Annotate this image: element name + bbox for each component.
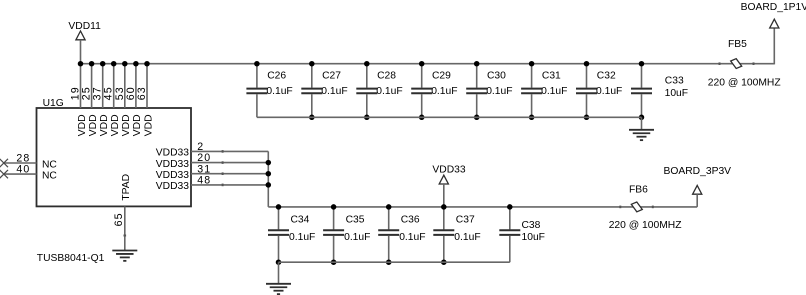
svg-text:BOARD_3P3V: BOARD_3P3V — [664, 166, 732, 177]
svg-text:VDD: VDD — [143, 114, 154, 136]
junction on VDD33 vertical — [266, 171, 272, 177]
wire: VDD11 top bus rail — [81, 63, 775, 65]
svg-text:U1G: U1G — [43, 98, 64, 109]
wire: NC pin 28 stub with no-connect X — [0, 159, 37, 167]
svg-text:0.1uF: 0.1uF — [266, 86, 292, 97]
wire: bottom bank ground rail — [279, 261, 510, 263]
svg-text:VDD11: VDD11 — [68, 21, 101, 32]
svg-text:220 @ 100MHZ: 220 @ 100MHZ — [609, 220, 682, 231]
capacitor C33 10uF — [631, 64, 688, 118]
power symbol VDD11 — [68, 21, 101, 64]
wire: VDD33 rail to bottom bank — [268, 206, 697, 208]
junction bottom rail / C28 — [364, 115, 370, 121]
junction bottom bank top rail / C37 — [441, 204, 447, 210]
junction top bus / C27 — [309, 61, 315, 66]
svg-text:0.1uF: 0.1uF — [321, 86, 347, 97]
ferrite bead FB6 — [619, 185, 654, 212]
svg-text:FB6: FB6 — [629, 185, 648, 196]
junction bottom bank top rail / C36 — [386, 204, 392, 210]
junction bottom bank top rail / C38 — [507, 204, 513, 210]
svg-text:48: 48 — [197, 175, 211, 187]
junction bottom bank ground rail / C34 — [276, 259, 282, 265]
junction on top bus at pin 45 — [111, 61, 117, 66]
junction bottom rail / C33 — [639, 115, 645, 121]
svg-text:C30: C30 — [487, 70, 506, 81]
capacitor C31 0.1uF — [521, 64, 567, 118]
junction on top bus at pin 63 — [144, 61, 150, 66]
junction top bus / C29 — [419, 61, 425, 66]
junction bottom bank top rail / C35 — [331, 204, 337, 210]
svg-text:10uF: 10uF — [522, 232, 545, 243]
svg-text:0.1uF: 0.1uF — [454, 232, 480, 243]
svg-text:0.1uF: 0.1uF — [541, 86, 567, 97]
power symbol BOARD_1P1V — [741, 2, 806, 28]
capacitor C36 0.1uF — [378, 207, 425, 262]
junction bottom rail / C30 — [474, 115, 480, 121]
svg-text:0.1uF: 0.1uF — [596, 86, 622, 97]
svg-text:VDD: VDD — [132, 114, 143, 136]
junction bottom rail / C31 — [529, 115, 535, 121]
IC U1G TUSB8041-Q1 body — [37, 108, 192, 206]
svg-text:VDD33: VDD33 — [156, 181, 189, 192]
junction on top bus at pin 25 — [89, 61, 95, 66]
junction top bus / C26 — [254, 61, 260, 66]
wire: VDD33 pin 48 — [191, 184, 268, 186]
svg-text:C36: C36 — [401, 215, 420, 226]
svg-text:VDD: VDD — [110, 114, 121, 136]
junction bottom rail / C27 — [309, 115, 315, 121]
svg-text:C34: C34 — [291, 215, 310, 226]
capacitor C29 0.1uF — [411, 64, 457, 118]
wire: NC pin 40 stub with no-connect X — [0, 170, 37, 178]
svg-text:VDD: VDD — [77, 114, 88, 136]
power symbol VDD33 — [432, 164, 465, 207]
svg-text:VDD33: VDD33 — [156, 170, 189, 181]
junction top bus / C32 — [584, 61, 590, 66]
junction top bus / C33 — [639, 61, 645, 66]
wire: VDD pin 53 stub — [124, 64, 126, 108]
junction top bus / C31 — [529, 61, 535, 66]
wire: VDD pin 37 stub — [102, 64, 104, 108]
svg-text:0.1uF: 0.1uF — [399, 232, 425, 243]
svg-text:0.1uF: 0.1uF — [376, 86, 402, 97]
capacitor C30 0.1uF — [466, 64, 512, 118]
svg-text:0.1uF: 0.1uF — [289, 232, 315, 243]
capacitor C38 10uF — [499, 207, 545, 262]
pin end tick (pin 2) — [222, 150, 224, 153]
wire: VDD33 pin 31 — [191, 173, 268, 175]
wire: VDD33 pin 2 — [191, 150, 268, 152]
junction on VDD33 vertical — [266, 160, 272, 166]
svg-text:FB5: FB5 — [728, 39, 747, 50]
svg-text:C28: C28 — [377, 70, 396, 81]
svg-text:VDD33: VDD33 — [432, 164, 465, 175]
svg-text:NC: NC — [42, 170, 57, 181]
svg-text:C32: C32 — [597, 70, 616, 81]
svg-text:VDD: VDD — [88, 114, 99, 136]
svg-text:40: 40 — [16, 163, 30, 175]
svg-text:10uF: 10uF — [665, 88, 688, 99]
pin end tick (pin 31) — [222, 172, 224, 175]
svg-text:C33: C33 — [665, 76, 684, 87]
capacitor C37 0.1uF — [433, 207, 480, 262]
wire: VDD pin 63 stub — [146, 64, 148, 108]
capacitor C28 0.1uF — [356, 64, 402, 118]
pin end tick (pin 65) — [124, 235, 127, 237]
ferrite bead FB5 — [719, 39, 755, 69]
svg-text:0.1uF: 0.1uF — [431, 86, 457, 97]
svg-text:C35: C35 — [346, 215, 365, 226]
svg-text:VDD: VDD — [99, 114, 110, 136]
wire: VDD33 pin 20 — [191, 162, 268, 164]
svg-text:C27: C27 — [322, 70, 341, 81]
wire: VDD pin 60 stub — [135, 64, 137, 108]
junction bottom rail / C29 — [419, 115, 425, 121]
junction top bus / C30 — [474, 61, 480, 66]
capacitor C27 0.1uF — [301, 64, 347, 118]
svg-text:TUSB8041-Q1: TUSB8041-Q1 — [37, 253, 105, 264]
svg-text:220 @ 100MHZ: 220 @ 100MHZ — [708, 78, 781, 89]
junction bottom bank ground rail / C37 — [441, 259, 447, 265]
junction on top bus at pin 60 — [133, 61, 139, 66]
svg-text:VDD33: VDD33 — [156, 148, 189, 159]
junction on VDD33 vertical — [266, 182, 272, 188]
junction on top bus at pin 19 — [78, 61, 84, 66]
pin end tick (pin 48) — [222, 184, 224, 187]
svg-text:0.1uF: 0.1uF — [486, 86, 512, 97]
svg-text:C26: C26 — [267, 70, 286, 81]
svg-text:NC: NC — [42, 159, 57, 170]
svg-text:31: 31 — [197, 163, 211, 175]
wire: riser to BOARD_1P1V — [773, 28, 775, 64]
ground symbol (bottom bank) — [266, 262, 291, 294]
junction bottom bank ground rail / C35 — [331, 259, 337, 265]
junction bottom bank top rail / C34 — [276, 204, 282, 210]
svg-text:VDD33: VDD33 — [156, 159, 189, 170]
svg-text:C29: C29 — [432, 70, 451, 81]
capacitor C35 0.1uF — [323, 207, 370, 262]
ground symbol (top bank) — [629, 117, 654, 140]
capacitor C34 0.1uF — [268, 207, 315, 262]
wire: TPAD pin stub — [124, 206, 126, 250]
wire: VDD pin 25 stub — [91, 64, 93, 108]
svg-text:C37: C37 — [456, 215, 475, 226]
junction bottom bank ground rail / C36 — [386, 259, 392, 265]
svg-text:BOARD_1P1V: BOARD_1P1V — [741, 2, 806, 13]
svg-text:63: 63 — [136, 86, 148, 100]
svg-text:C38: C38 — [522, 220, 541, 231]
svg-text:VDD: VDD — [121, 114, 132, 136]
svg-text:TPAD: TPAD — [121, 174, 132, 201]
svg-text:0.1uF: 0.1uF — [344, 232, 370, 243]
wire: VDD pin 45 stub — [113, 64, 115, 108]
junction top bus / C28 — [364, 61, 370, 66]
wire: VDD pin 19 stub — [80, 64, 82, 108]
wire: vertical join of VDD33 pins — [267, 151, 269, 207]
pin end tick (pin 20) — [222, 161, 224, 164]
power symbol BOARD_3P3V — [664, 166, 732, 207]
junction on top bus at pin 37 — [100, 61, 106, 66]
junction on top bus at pin 53 — [122, 61, 128, 66]
svg-text:2: 2 — [197, 141, 204, 153]
ground symbol (TPAD) — [112, 250, 137, 260]
junction bottom rail / C32 — [584, 115, 590, 121]
svg-text:65: 65 — [113, 212, 125, 226]
svg-text:C31: C31 — [542, 70, 561, 81]
wire: top bank ground rail — [257, 116, 642, 118]
capacitor C26 0.1uF — [246, 64, 292, 118]
capacitor C32 0.1uF — [576, 64, 622, 118]
